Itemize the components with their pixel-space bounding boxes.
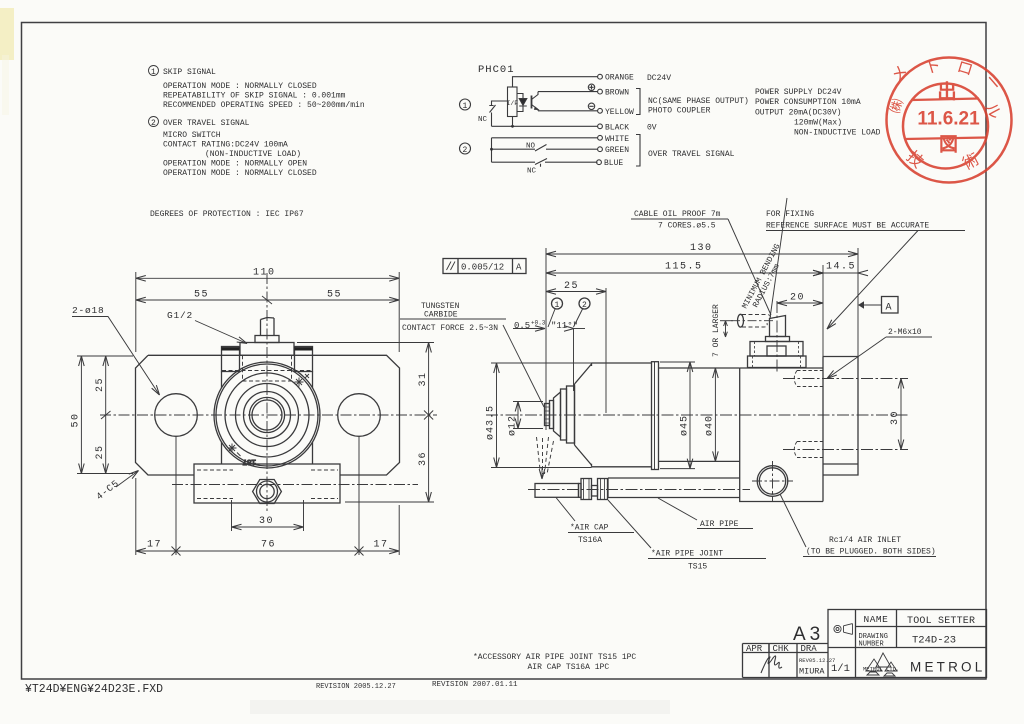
over travel signal spec text bbox=[163, 119, 317, 178]
dim phi43.5 bbox=[486, 363, 592, 468]
svg-text:OVER TRAVEL SIGNAL: OVER TRAVEL SIGNAL bbox=[648, 150, 735, 159]
svg-text:A3: A3 bbox=[793, 624, 824, 645]
svg-text:REVISION 2007.01.11: REVISION 2007.01.11 bbox=[432, 681, 518, 689]
dim 50 bbox=[71, 356, 134, 474]
skip signal spec text bbox=[163, 68, 365, 110]
center boss circles bbox=[249, 397, 284, 432]
svg-text:0.005/12: 0.005/12 bbox=[461, 263, 504, 273]
svg-text:2-ø18: 2-ø18 bbox=[72, 305, 105, 316]
svg-text:130: 130 bbox=[690, 243, 713, 254]
svg-text:AIR PIPE: AIR PIPE bbox=[700, 520, 739, 529]
stamp band lines bbox=[905, 99, 986, 140]
cable axis bbox=[731, 320, 773, 322]
dim phi12 bbox=[508, 402, 544, 437]
dim 30 bottom bbox=[232, 500, 304, 531]
mounting block bbox=[740, 357, 823, 502]
svg-text:出: 出 bbox=[937, 80, 957, 103]
terminal YELLOW bbox=[598, 108, 603, 113]
svg-text:ø12: ø12 bbox=[508, 415, 519, 436]
label 2-phi18 bbox=[72, 305, 160, 395]
junction dot bbox=[511, 125, 514, 128]
svg-text:DEGREES OF PROTECTION : IEC IP: DEGREES OF PROTECTION : IEC IP67 bbox=[150, 210, 304, 219]
terminal BLACK bbox=[598, 124, 603, 129]
terminal BROWN bbox=[598, 89, 603, 94]
dim 30 rear bbox=[890, 379, 901, 450]
NC contact blade (skip) bbox=[489, 105, 495, 113]
svg-text:NAME: NAME bbox=[864, 614, 889, 625]
dim 0.5 and 11 deg bbox=[513, 320, 585, 392]
svg-text:CABLE OIL PROOF 7m: CABLE OIL PROOF 7m bbox=[634, 210, 721, 219]
plus symbol at brown bbox=[588, 84, 594, 90]
terminal GREEN bbox=[598, 147, 603, 152]
dim phi40 bbox=[705, 368, 716, 461]
plug hex nut bbox=[253, 480, 282, 504]
svg-text:2: 2 bbox=[151, 119, 156, 128]
dim 7 or larger bbox=[712, 304, 733, 357]
svg-text:76: 76 bbox=[261, 540, 276, 551]
svg-text:NO: NO bbox=[526, 143, 536, 151]
wire to orange terminal bbox=[513, 77, 598, 87]
dim phi45 bbox=[660, 362, 695, 469]
title block frame bbox=[828, 610, 987, 678]
svg-text:REFERENCE SURFACE MUST BE ACCU: REFERENCE SURFACE MUST BE ACCURATE bbox=[766, 222, 929, 231]
over-travel left bus bbox=[491, 138, 493, 162]
svg-text:50: 50 bbox=[71, 412, 82, 427]
interface box I/F bbox=[507, 87, 519, 117]
wire to blue with NC contact bbox=[492, 161, 598, 163]
svg-text:BLUE: BLUE bbox=[604, 159, 623, 168]
NC contact blade (over travel) bbox=[535, 159, 547, 167]
M6 hole axes bbox=[783, 379, 908, 450]
air pipe axis line bbox=[172, 484, 418, 486]
svg-text:55: 55 bbox=[327, 290, 342, 301]
wire from box bottom bbox=[512, 117, 514, 127]
svg-text:55: 55 bbox=[194, 290, 209, 301]
wire emitter to yellow bbox=[538, 110, 598, 112]
cap collar bbox=[579, 484, 582, 498]
svg-text:2: 2 bbox=[463, 146, 468, 155]
svg-text:120mW(Max): 120mW(Max) bbox=[794, 119, 842, 128]
svg-text:OPERATION MODE : NORMALLY OPEN: OPERATION MODE : NORMALLY OPEN bbox=[163, 160, 307, 169]
body cylinder bbox=[592, 363, 652, 467]
hole left phi18 bbox=[155, 394, 198, 437]
svg-text:A: A bbox=[516, 263, 522, 273]
gland flange bbox=[766, 337, 790, 342]
checker signature bbox=[761, 656, 782, 673]
nose cone bbox=[575, 364, 592, 465]
stylus rod bbox=[261, 318, 275, 336]
svg-text:REVISION 2005.12.27: REVISION 2005.12.27 bbox=[316, 683, 396, 691]
leader to tip bbox=[503, 325, 544, 407]
svg-text:30: 30 bbox=[259, 516, 274, 527]
svg-text:25: 25 bbox=[564, 281, 579, 292]
svg-text:OPERATION MODE : NORMALLY CLOS: OPERATION MODE : NORMALLY CLOSED bbox=[163, 169, 317, 178]
svg-text:SKIP SIGNAL: SKIP SIGNAL bbox=[163, 68, 216, 77]
dim 25 25 bbox=[95, 356, 111, 474]
svg-text:TS15: TS15 bbox=[688, 563, 707, 572]
svg-text:*AIR PIPE JOINT: *AIR PIPE JOINT bbox=[651, 550, 723, 559]
svg-text:0V: 0V bbox=[647, 123, 657, 132]
opto LED diode bbox=[519, 99, 527, 107]
svg-text:NON-INDUCTIVE LOAD: NON-INDUCTIVE LOAD bbox=[794, 129, 881, 138]
body circle bbox=[225, 373, 309, 457]
bracket hidden lines bbox=[197, 470, 338, 499]
cable gland base bbox=[748, 356, 807, 368]
svg-text:BLACK: BLACK bbox=[605, 123, 629, 132]
svg-text:+0.3: +0.3 bbox=[531, 320, 546, 327]
svg-text:APR: APR bbox=[746, 644, 763, 654]
bottom bracket bbox=[194, 464, 340, 503]
dim 55 55 bbox=[136, 290, 399, 305]
cable gland body bbox=[750, 342, 803, 357]
dim 130 bbox=[546, 243, 858, 430]
air inlet port bbox=[752, 461, 793, 501]
carbide tip bbox=[545, 404, 550, 426]
svg-text:PHOTO COUPLER: PHOTO COUPLER bbox=[648, 107, 711, 116]
svg-text:(NON-INDUCTIVE LOAD): (NON-INDUCTIVE LOAD) bbox=[205, 150, 301, 159]
wire color labels bbox=[604, 74, 634, 169]
svg-text:36: 36 bbox=[418, 451, 429, 466]
svg-text:OPERATION MODE : NORMALLY CLOS: OPERATION MODE : NORMALLY CLOSED bbox=[163, 82, 317, 91]
bolt right bbox=[295, 347, 313, 372]
label air pipe bbox=[658, 498, 753, 529]
svg-text:0.5: 0.5 bbox=[514, 321, 530, 331]
leader bending radius bbox=[770, 198, 787, 318]
NO contact blade bbox=[535, 145, 547, 152]
cone small bbox=[554, 392, 561, 437]
svg-text:BROWN: BROWN bbox=[605, 89, 629, 98]
svg-text:YELLOW: YELLOW bbox=[605, 108, 634, 117]
svg-text:NUMBER: NUMBER bbox=[859, 641, 885, 649]
metrol logo mountains bbox=[866, 653, 897, 676]
opto LED wires bbox=[517, 94, 523, 112]
svg-text:G1/2: G1/2 bbox=[167, 310, 193, 321]
title block inner lines bbox=[828, 610, 987, 678]
dim 115.5 and 14.5 bbox=[546, 262, 858, 374]
base plate with chamfers bbox=[136, 355, 400, 475]
svg-text:7 OR LARGER: 7 OR LARGER bbox=[712, 304, 721, 357]
ring circle 2 bbox=[244, 392, 291, 439]
cap plate bbox=[240, 343, 294, 356]
air blow stream dashes bbox=[537, 437, 554, 474]
svg-text:7 CORES.ø5.5: 7 CORES.ø5.5 bbox=[658, 222, 716, 231]
terminal WHITE bbox=[598, 135, 603, 140]
svg-text:25: 25 bbox=[95, 377, 106, 392]
svg-text:POWER CONSUMPTION 10mA: POWER CONSUMPTION 10mA bbox=[755, 98, 861, 107]
main axis center line bbox=[486, 414, 908, 416]
svg-text:Rc1/4 AIR INLET: Rc1/4 AIR INLET bbox=[829, 536, 901, 545]
svg-text:REV05.12.27: REV05.12.27 bbox=[799, 657, 835, 664]
wire to white bbox=[492, 137, 598, 139]
svg-text:ø43.5: ø43.5 bbox=[486, 405, 497, 440]
wire to green with NO contact bbox=[492, 148, 598, 150]
svg-text:11.6.21: 11.6.21 bbox=[917, 109, 980, 130]
label 2-M6x10 bbox=[827, 328, 932, 379]
svg-text:(TO BE PLUGGED. BOTH SIDES): (TO BE PLUGGED. BOTH SIDES) bbox=[806, 548, 936, 557]
svg-text:20: 20 bbox=[790, 293, 805, 304]
junction dot bus bbox=[490, 148, 493, 151]
engraving marks lower left bbox=[228, 444, 241, 457]
hole right phi18 bbox=[338, 394, 381, 437]
datum A bbox=[858, 297, 898, 314]
accessory note bbox=[473, 653, 636, 672]
svg-text:WHITE: WHITE bbox=[605, 135, 629, 144]
svg-text:DRA: DRA bbox=[801, 644, 818, 654]
stamp inner circle bbox=[903, 84, 988, 169]
mid cylinder phi40 bbox=[659, 368, 740, 461]
svg-text:GREEN: GREEN bbox=[605, 146, 629, 155]
svg-text:*ACCESSORY AIR PIPE JOINT TS15: *ACCESSORY AIR PIPE JOINT TS15 1PC bbox=[473, 653, 636, 662]
svg-text:OUTPUT 20mA(DC30V): OUTPUT 20mA(DC30V) bbox=[755, 109, 841, 118]
joint hex nut bbox=[581, 479, 592, 500]
terminal BLUE bbox=[597, 160, 602, 165]
note 2 circled number bbox=[149, 117, 159, 129]
svg-text:A: A bbox=[886, 303, 892, 314]
circled 1 (circuit) bbox=[460, 99, 471, 111]
svg-text:31: 31 bbox=[418, 371, 429, 386]
svg-text:AIR CAP TS16A 1PC: AIR CAP TS16A 1PC bbox=[528, 663, 610, 672]
svg-text:OVER TRAVEL SIGNAL: OVER TRAVEL SIGNAL bbox=[163, 119, 250, 128]
flatness tolerance frame bbox=[443, 259, 526, 274]
plug circles bbox=[257, 481, 278, 502]
position marker 2 bbox=[574, 298, 591, 327]
svg-text:図: 図 bbox=[939, 134, 958, 156]
air blow arrow bbox=[541, 468, 543, 479]
body block side edges bbox=[222, 372, 313, 465]
svg-text:NC: NC bbox=[527, 168, 537, 176]
air cap tube bbox=[535, 484, 579, 498]
joint stem bbox=[592, 486, 598, 497]
label G1/2 bbox=[167, 310, 247, 344]
svg-text:MICRO SWITCH: MICRO SWITCH bbox=[163, 131, 221, 140]
cable bend dashed bbox=[742, 315, 771, 328]
phototransistor bbox=[532, 92, 539, 111]
body flange bbox=[652, 362, 659, 470]
tapped hole M6 lower bbox=[794, 442, 823, 458]
svg-text:ø45: ø45 bbox=[680, 415, 691, 436]
label DRAWING NUMBER bbox=[859, 633, 888, 649]
label minimum bending radius bbox=[741, 242, 791, 314]
tapped hole M6 upper bbox=[794, 371, 823, 387]
wire collector to brown bbox=[538, 91, 598, 93]
svg-text:2-M6x10: 2-M6x10 bbox=[888, 328, 922, 337]
gland clamp bbox=[767, 346, 786, 356]
svg-text:RECOMMENDED OPERATING SPEED :: RECOMMENDED OPERATING SPEED : 50~200mm/m… bbox=[163, 101, 365, 110]
rear flange bbox=[823, 357, 858, 476]
svg-text:30: 30 bbox=[890, 410, 901, 425]
note 1 circled number bbox=[149, 66, 159, 78]
svg-text:1: 1 bbox=[555, 301, 560, 310]
collar A bbox=[561, 389, 567, 440]
stamp outer ring bbox=[887, 58, 1012, 183]
label air pipe joint bbox=[608, 500, 766, 572]
svg-text:METROL LTD.: METROL LTD. bbox=[863, 666, 899, 673]
terminal ORANGE bbox=[598, 74, 603, 79]
cable end bbox=[738, 314, 744, 327]
leader to reference surface bbox=[827, 231, 918, 330]
air pipe tube bbox=[608, 478, 740, 498]
position marker 1 bbox=[548, 298, 563, 327]
svg-text:115.5: 115.5 bbox=[665, 262, 703, 273]
minus symbol at yellow bbox=[588, 103, 594, 109]
svg-text:¥T24D¥ENG¥24D23E.FXD: ¥T24D¥ENG¥24D23E.FXD bbox=[25, 683, 163, 696]
leader to gland bbox=[728, 219, 771, 315]
circled 2 (circuit) bbox=[460, 143, 471, 155]
svg-text:METROL: METROL bbox=[910, 660, 985, 675]
svg-text:NC: NC bbox=[478, 116, 488, 124]
label air cap bbox=[556, 498, 634, 546]
gland axis bbox=[776, 301, 778, 373]
horizontal center line bbox=[100, 414, 437, 416]
bezel outer circles bbox=[214, 362, 320, 468]
svg-text:1/1: 1/1 bbox=[831, 663, 850, 675]
gland nut bbox=[770, 316, 786, 337]
engraving marks upper right bbox=[295, 374, 310, 387]
svg-text:NC(SAME PHASE OUTPUT): NC(SAME PHASE OUTPUT) bbox=[648, 97, 749, 106]
collar B bbox=[567, 386, 575, 443]
vertical center line bbox=[266, 273, 268, 512]
svg-text:2: 2 bbox=[582, 301, 587, 310]
ring circle bbox=[236, 384, 299, 447]
svg-text:CARBIDE: CARBIDE bbox=[424, 311, 458, 320]
svg-text:1: 1 bbox=[463, 102, 468, 111]
svg-text:FOR FIXING: FOR FIXING bbox=[766, 210, 814, 219]
svg-text:T24D-23: T24D-23 bbox=[912, 635, 956, 647]
hidden body edges bbox=[243, 355, 292, 381]
svg-text:*AIR CAP: *AIR CAP bbox=[570, 524, 609, 533]
svg-text:25: 25 bbox=[95, 444, 106, 459]
svg-text:MIURA: MIURA bbox=[799, 667, 825, 677]
dim 110 bbox=[136, 268, 399, 353]
svg-text:PHC01: PHC01 bbox=[478, 64, 515, 76]
label cable oil proof bbox=[634, 210, 721, 231]
svg-text:CONTACT RATING:DC24V 100mA: CONTACT RATING:DC24V 100mA bbox=[163, 141, 288, 150]
tip step bbox=[550, 401, 554, 429]
svg-text:I/F: I/F bbox=[507, 100, 519, 107]
label tungsten carbide bbox=[402, 302, 498, 333]
svg-text:POWER SUPPLY DC24V: POWER SUPPLY DC24V bbox=[755, 88, 842, 97]
power specification text bbox=[755, 88, 881, 138]
svg-text:CHK: CHK bbox=[773, 644, 790, 654]
skip NC contact branch bbox=[492, 101, 508, 126]
svg-text:17: 17 bbox=[374, 540, 389, 551]
dim 31 36 bbox=[297, 343, 434, 503]
svg-text:"11°": "11°" bbox=[551, 321, 578, 331]
pipe joint nut bbox=[598, 479, 608, 500]
approval table bbox=[743, 644, 836, 678]
svg-text:DC24V: DC24V bbox=[647, 74, 671, 83]
label air inlet bbox=[780, 494, 936, 557]
svg-text:REPEATABILITY OF SKIP SIGNAL :: REPEATABILITY OF SKIP SIGNAL : 0.001mm bbox=[163, 92, 346, 101]
svg-text:TOOL SETTER: TOOL SETTER bbox=[907, 616, 975, 627]
svg-text:ORANGE: ORANGE bbox=[605, 74, 634, 83]
svg-text:ø40: ø40 bbox=[705, 415, 716, 436]
dim 20 bbox=[777, 293, 823, 304]
bolt left bbox=[222, 347, 240, 372]
first angle projection symbol bbox=[834, 624, 853, 635]
bracket over travel bbox=[636, 135, 640, 167]
svg-text:110: 110 bbox=[253, 268, 276, 279]
label for fixing bbox=[766, 210, 929, 231]
svg-text:14.5: 14.5 bbox=[826, 262, 856, 273]
wire 0V to black bbox=[492, 125, 598, 127]
stylus collar bbox=[255, 336, 279, 343]
svg-text:TS16A: TS16A bbox=[578, 536, 602, 545]
bracket photo coupler outputs bbox=[636, 89, 640, 115]
svg-text:17: 17 bbox=[147, 540, 162, 551]
pipe axis bbox=[528, 489, 750, 491]
svg-text:CONTACT FORCE 2.5~3N: CONTACT FORCE 2.5~3N bbox=[402, 324, 498, 333]
label 4-C5 bbox=[94, 471, 138, 503]
svg-text:1: 1 bbox=[151, 68, 156, 77]
dim 25 bbox=[546, 281, 606, 413]
dim 17 76 17 bbox=[136, 437, 399, 556]
